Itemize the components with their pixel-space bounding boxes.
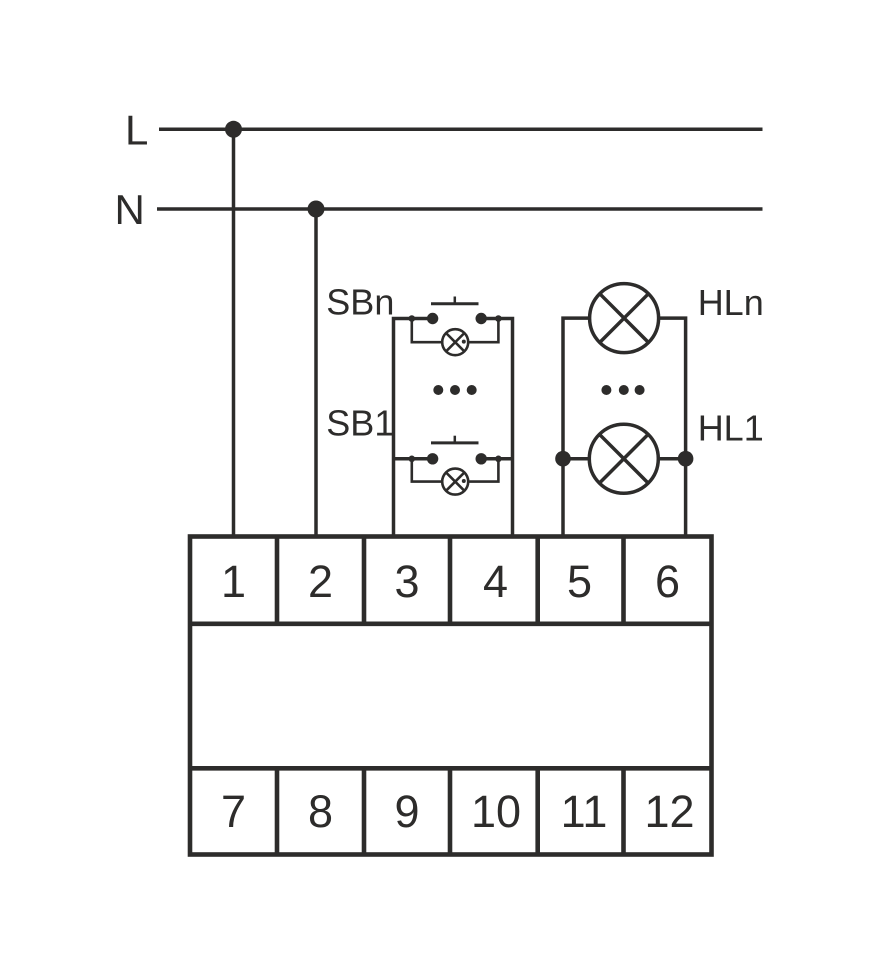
svg-text:3: 3 xyxy=(394,556,419,607)
svg-text:12: 12 xyxy=(644,786,694,837)
svg-text:L: L xyxy=(125,107,148,154)
svg-text:10: 10 xyxy=(471,786,521,837)
svg-text:5: 5 xyxy=(567,556,592,607)
svg-text:11: 11 xyxy=(561,786,608,837)
svg-text:6: 6 xyxy=(655,556,680,607)
svg-text:2: 2 xyxy=(308,556,333,607)
svg-text:7: 7 xyxy=(221,786,246,837)
svg-text:4: 4 xyxy=(483,556,508,607)
svg-text:HLn: HLn xyxy=(698,282,764,323)
svg-text:9: 9 xyxy=(394,786,419,837)
svg-text:8: 8 xyxy=(308,786,333,837)
svg-text:1: 1 xyxy=(221,556,246,607)
svg-text:N: N xyxy=(115,186,145,233)
svg-text:SB1: SB1 xyxy=(326,403,394,444)
svg-text:HL1: HL1 xyxy=(698,408,764,449)
svg-text:SBn: SBn xyxy=(326,282,394,323)
